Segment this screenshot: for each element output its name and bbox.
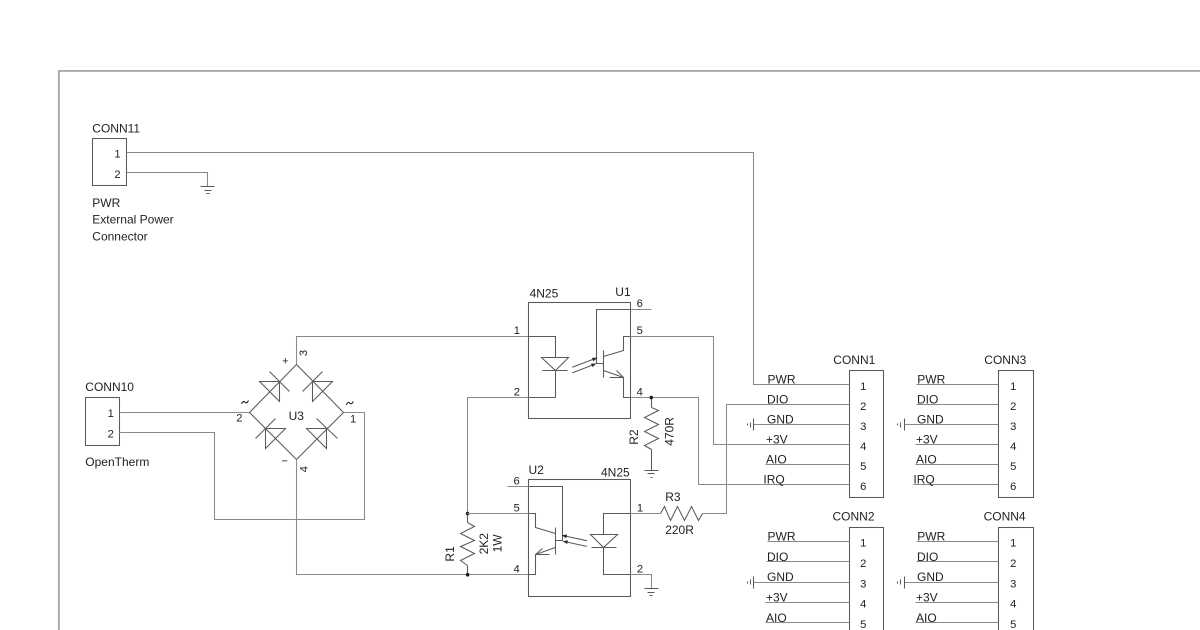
svg-text:PWR: PWR bbox=[768, 529, 796, 543]
svg-text:6: 6 bbox=[1010, 481, 1016, 493]
svg-text:OpenTherm: OpenTherm bbox=[85, 455, 149, 469]
svg-text:PWR: PWR bbox=[917, 529, 945, 543]
svg-text:1: 1 bbox=[514, 325, 520, 337]
svg-text:+3V: +3V bbox=[766, 433, 788, 447]
svg-text:220R: 220R bbox=[665, 523, 694, 537]
svg-text:3: 3 bbox=[1010, 578, 1016, 590]
svg-text:R2: R2 bbox=[627, 429, 641, 445]
svg-text:DIO: DIO bbox=[767, 550, 788, 564]
svg-text:Connector: Connector bbox=[92, 229, 147, 243]
svg-text:PWR: PWR bbox=[768, 373, 796, 387]
svg-text:1: 1 bbox=[637, 502, 643, 514]
svg-text:GND: GND bbox=[767, 413, 794, 427]
svg-text:2: 2 bbox=[108, 429, 114, 441]
svg-text:2: 2 bbox=[860, 401, 866, 413]
svg-text:−: − bbox=[281, 456, 288, 468]
svg-text:1: 1 bbox=[1010, 538, 1016, 550]
svg-text:6: 6 bbox=[637, 298, 643, 310]
svg-text:1: 1 bbox=[860, 381, 866, 393]
svg-text:CONN3: CONN3 bbox=[984, 353, 1026, 367]
svg-text:GND: GND bbox=[917, 570, 944, 584]
svg-text:6: 6 bbox=[513, 475, 519, 487]
svg-text:4: 4 bbox=[298, 466, 310, 472]
svg-text:470R: 470R bbox=[662, 417, 676, 446]
svg-text:3: 3 bbox=[1010, 421, 1016, 433]
svg-text:R3: R3 bbox=[665, 490, 681, 504]
svg-text:AIO: AIO bbox=[916, 611, 937, 625]
svg-text:CONN4: CONN4 bbox=[984, 509, 1026, 523]
svg-text:4N25: 4N25 bbox=[601, 466, 630, 480]
svg-text:1: 1 bbox=[1010, 381, 1016, 393]
svg-text:5: 5 bbox=[1010, 619, 1016, 630]
svg-text:PWR: PWR bbox=[92, 196, 120, 210]
svg-text:5: 5 bbox=[860, 461, 866, 473]
svg-text:DIO: DIO bbox=[917, 550, 938, 564]
svg-text:R1: R1 bbox=[443, 546, 457, 562]
svg-text:5: 5 bbox=[513, 502, 519, 514]
svg-text:PWR: PWR bbox=[917, 373, 945, 387]
svg-text:+3V: +3V bbox=[916, 590, 938, 604]
svg-text:GND: GND bbox=[917, 413, 944, 427]
svg-text:2: 2 bbox=[514, 386, 520, 398]
svg-text:2: 2 bbox=[637, 564, 643, 576]
svg-text:6: 6 bbox=[860, 481, 866, 493]
svg-text:2: 2 bbox=[114, 169, 120, 181]
svg-text:4: 4 bbox=[637, 386, 643, 398]
svg-text:2K2: 2K2 bbox=[477, 533, 491, 555]
svg-text:2: 2 bbox=[860, 558, 866, 570]
svg-text:4: 4 bbox=[1010, 599, 1016, 611]
svg-text:CONN1: CONN1 bbox=[833, 353, 875, 367]
svg-text:3: 3 bbox=[860, 421, 866, 433]
svg-text:1: 1 bbox=[114, 149, 120, 161]
svg-text:U3: U3 bbox=[289, 409, 305, 423]
svg-text:IRQ: IRQ bbox=[913, 473, 934, 487]
svg-text:1: 1 bbox=[108, 408, 114, 420]
svg-text:3: 3 bbox=[860, 578, 866, 590]
svg-text:1W: 1W bbox=[490, 534, 504, 553]
svg-text:1: 1 bbox=[350, 413, 356, 425]
svg-text:GND: GND bbox=[767, 570, 794, 584]
svg-text:DIO: DIO bbox=[917, 393, 938, 407]
svg-text:IRQ: IRQ bbox=[763, 473, 784, 487]
svg-text:4N25: 4N25 bbox=[530, 286, 559, 300]
svg-text:2: 2 bbox=[1010, 401, 1016, 413]
svg-text:5: 5 bbox=[1010, 461, 1016, 473]
svg-text:2: 2 bbox=[236, 413, 242, 425]
svg-text:5: 5 bbox=[637, 325, 643, 337]
svg-text:+3V: +3V bbox=[916, 433, 938, 447]
svg-text:External Power: External Power bbox=[92, 213, 173, 227]
svg-text:CONN11: CONN11 bbox=[92, 121, 140, 135]
svg-text:5: 5 bbox=[860, 619, 866, 630]
svg-text:CONN2: CONN2 bbox=[833, 509, 875, 523]
svg-text:4: 4 bbox=[1010, 441, 1016, 453]
svg-text:4: 4 bbox=[513, 564, 519, 576]
svg-text:AIO: AIO bbox=[766, 453, 787, 467]
svg-text:AIO: AIO bbox=[766, 611, 787, 625]
svg-text:3: 3 bbox=[298, 350, 310, 356]
svg-text:4: 4 bbox=[860, 599, 866, 611]
svg-text:+3V: +3V bbox=[766, 590, 788, 604]
svg-text:2: 2 bbox=[1010, 558, 1016, 570]
svg-text:U1: U1 bbox=[615, 285, 631, 299]
svg-text:DIO: DIO bbox=[767, 393, 788, 407]
svg-text:CONN10: CONN10 bbox=[85, 380, 134, 394]
svg-text:1: 1 bbox=[860, 538, 866, 550]
svg-text:AIO: AIO bbox=[916, 453, 937, 467]
svg-text:4: 4 bbox=[860, 441, 866, 453]
svg-text:U2: U2 bbox=[529, 463, 545, 477]
svg-text:+: + bbox=[282, 356, 289, 368]
